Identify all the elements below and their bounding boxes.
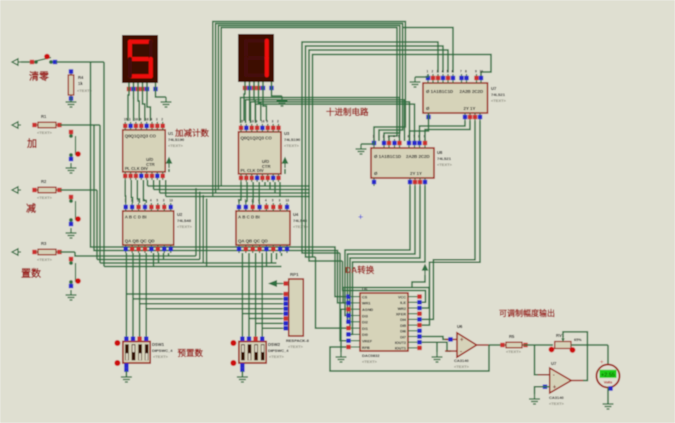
resistor R4 [68,69,74,100]
ground DSW1 [121,377,132,382]
wire U7 pin1 gnd [415,74,428,77]
svg-text:CA3140: CA3140 [454,358,469,363]
svg-text:XFER: XFER [396,313,406,317]
svg-text:65%: 65% [574,338,582,342]
wire U4 aux drop [276,253,278,260]
svg-text:IOUT1: IOUT1 [395,347,406,351]
svg-text:QA QB QC QD: QA QB QC QD [125,239,155,244]
7-segment display digit 5 [122,35,158,83]
svg-text:CA3140: CA3140 [549,395,564,400]
wire DAC vcc [412,275,425,288]
svg-text:+2.55: +2.55 [601,373,615,379]
wire U2 aux drop [168,253,170,256]
wire U7b feedback to RV1 wiper [563,332,587,381]
svg-text:DI6: DI6 [400,330,406,334]
svg-text:8: 8 [266,119,268,123]
wire IOUT1 to op-amp [422,337,451,340]
wire U3 control drop [269,182,271,190]
svg-text:5: 5 [272,199,274,203]
input terminal RP1 pin1 [268,280,282,287]
wire [21,61,31,63]
op-amp U7 CA3140 second [538,368,584,393]
svg-text:+: + [553,385,557,391]
wire U3 outputs to U8 [241,98,415,142]
svg-text:Q0Q1Q2Q3 CO: Q0Q1Q2Q3 CO [241,135,273,140]
wire U3 control drop [279,182,281,197]
wire [60,189,97,191]
wire riser [195,188,197,256]
wire U8 outputs to DAC [345,186,425,334]
svg-text:WR1: WR1 [362,302,370,306]
push button subtract [70,196,76,225]
svg-text:R5: R5 [509,334,515,339]
wire to U7b minus [535,345,550,375]
svg-text:<TEXT>: <TEXT> [288,344,304,349]
wire RP1 to DSW2 columns [242,314,282,329]
svg-text:3: 3 [156,117,158,121]
svg-text:AGND: AGND [362,308,373,312]
ground [66,228,77,238]
svg-text:7: 7 [413,135,415,139]
ground op-amp U7b [529,394,540,404]
wire DAC WR2 loop [343,288,429,309]
wire clear net vertical [103,62,105,267]
svg-text:2: 2 [277,119,279,123]
wire U1 control drop [147,180,149,186]
wire U1 control drop [159,180,161,193]
svg-text:<TEXT>: <TEXT> [284,143,300,148]
power arrow U3 [283,158,288,168]
svg-text:减: 减 [26,202,36,215]
wire U4 aux drop [281,253,283,256]
svg-text:2: 2 [432,70,434,74]
svg-text:PL CLK DIV: PL CLK DIV [241,168,264,173]
svg-text:2A2B 2C2D: 2A2B 2C2D [406,154,430,159]
wire bundle A line [221,28,397,187]
wire U4 to DSW2 [242,253,262,339]
svg-text:3: 3 [437,70,439,74]
counter IC U3 74LS190 [239,119,282,181]
wire R5 to RV1 [524,344,553,346]
wire riser [202,195,204,263]
svg-text:2Y 1Y: 2Y 1Y [410,171,422,176]
power arrow U1 [167,158,172,168]
wire meter top [607,345,609,365]
input terminal subtract [12,187,21,193]
svg-text:7: 7 [460,70,462,74]
svg-text:U7: U7 [551,361,557,366]
svg-text:Ø 1A1B1C1D: Ø 1A1B1C1D [374,154,401,159]
decoder IC U4 74LS48 [236,199,290,254]
svg-text:Ø 1A1B1C1D: Ø 1A1B1C1D [426,89,453,94]
wire U7 right input riser [313,55,492,258]
svg-text:6: 6 [452,70,454,74]
ground [66,163,77,173]
op-amp U6 input marker [448,337,452,341]
wire bundle A line [216,24,403,194]
svg-text:IOUT2: IOUT2 [395,341,406,345]
gate IC U7 74LS21 [423,70,488,122]
wire U8 pin1 gnd [361,141,374,144]
svg-text:R4: R4 [78,75,84,80]
potentiometer RV1 [549,337,576,353]
svg-text:DA转换: DA转换 [345,265,375,275]
wire U7 inputs riser group [302,42,448,341]
ground DSW2 [237,377,248,382]
wire U1 to U2 data [125,180,146,203]
wire DAC agnd [341,309,346,352]
wire U7 out2 to DAC DI6 [422,121,480,325]
ground display2 common [277,96,288,106]
wire meter bottom [607,388,609,405]
svg-text:U6: U6 [457,324,463,329]
wire DSW1 gnd [125,371,127,377]
wire riser [206,199,208,267]
wire control bus [154,189,310,191]
svg-text:DIPSWC_4: DIPSWC_4 [268,348,289,353]
DIP switch DSW1 [114,337,150,373]
svg-text:16: 16 [261,119,265,123]
svg-text:2: 2 [383,135,385,139]
ground U7 [410,77,421,87]
svg-text:RFB: RFB [362,346,370,350]
wire bus subtract [97,259,200,261]
svg-text:十进制电路: 十进制电路 [326,107,369,117]
svg-text:VCC: VCC [398,295,406,299]
svg-text:<TEXT>: <TEXT> [437,162,453,167]
svg-text:-: - [553,373,555,379]
svg-text:5: 5 [156,199,158,203]
svg-text:DI7: DI7 [400,335,406,339]
wire riser [199,192,201,260]
svg-text:4: 4 [150,199,152,203]
power arrow DAC VCC [423,265,428,275]
svg-text:74LS190: 74LS190 [284,137,301,142]
DAC IC U5 DAC0832 [346,293,422,351]
svg-text:QA QB QC QD: QA QB QC QD [238,239,268,244]
wire control bus [160,192,310,194]
svg-text:1: 1 [427,70,429,74]
DIP switch DSW2 [230,337,266,373]
svg-text:Q0Q1Q2Q3 CO: Q0Q1Q2Q3 CO [125,133,157,138]
wire RV1 to meter [571,344,608,346]
svg-text:<TEXT>: <TEXT> [37,195,53,200]
svg-text:加减计数: 加减计数 [174,128,210,138]
decoder IC U2 74LS48 [123,199,174,254]
wire bundle A line [218,26,399,190]
wire data bit to DAC [94,125,346,303]
resistor R5 [500,342,527,348]
svg-text:RP1: RP1 [290,272,299,277]
svg-text:Ø: Ø [426,106,430,111]
svg-text:4: 4 [393,135,395,139]
svg-text:DI0: DI0 [362,333,368,337]
svg-text:U2: U2 [177,212,183,217]
wire U3 to U4 data [239,182,260,203]
op-amp U7b input marker [543,385,547,389]
wire [60,251,75,253]
svg-text:<TEXT>: <TEXT> [454,364,470,369]
svg-text:74LS21: 74LS21 [491,92,506,97]
svg-text:VREF: VREF [362,340,373,344]
svg-text:<TEXT>: <TEXT> [491,98,507,103]
svg-text:1: 1 [129,117,131,121]
svg-text:3: 3 [388,135,390,139]
wire add net vertical [99,125,101,263]
svg-text:DIPSWC_4: DIPSWC_4 [152,348,173,353]
svg-text:<TEXT>: <TEXT> [153,354,169,359]
svg-text:4: 4 [265,199,267,203]
wire bundle A branch to U7 [403,28,453,73]
svg-text:1: 1 [373,135,375,139]
svg-text:R1: R1 [41,114,47,119]
svg-text:A B C D BI: A B C D BI [238,215,260,220]
resistor R1 [32,122,61,128]
wire [60,124,100,126]
svg-text:U3: U3 [284,131,290,136]
wire U1 control drop [165,180,167,197]
svg-text:9: 9 [475,70,477,74]
wire bus extension [203,262,276,264]
svg-text:2Y 1Y: 2Y 1Y [464,106,476,111]
svg-text:8: 8 [465,70,467,74]
svg-text:74LS21: 74LS21 [437,156,452,161]
push button load [70,258,76,287]
gate IC U8 74LS21 [371,135,434,187]
voltmeter [597,365,620,388]
wire U2 to DSW1 [126,253,146,339]
svg-text:-: - [460,349,462,355]
svg-text:5: 5 [398,135,400,139]
svg-text:U1: U1 [168,131,174,136]
wire bus extension [207,266,282,268]
svg-text:DSW2: DSW2 [268,342,281,347]
svg-text:1k: 1k [78,81,83,86]
wire U2 aux drop [153,253,155,267]
svg-text:13: 13 [169,199,173,203]
svg-text:<TEXT>: <TEXT> [168,143,184,148]
wire to op-amp plus [437,342,451,351]
display2 pin markers [243,86,247,90]
svg-text:<TEXT>: <TEXT> [37,257,53,262]
wire U2 aux drop [158,253,160,263]
svg-text:DI4: DI4 [400,318,407,322]
svg-text:置数: 置数 [21,267,42,280]
ground DAC left [336,352,347,362]
svg-text:10: 10 [134,117,138,121]
wire U3 control drop [264,182,266,186]
wire U7b plus to gnd [535,387,550,394]
svg-text:+: + [460,338,464,344]
wire U7 out to U8 b [425,121,470,141]
resistor pack RP1 [282,279,303,336]
svg-text:R2: R2 [41,179,47,184]
wire display2 common [272,82,283,96]
svg-text:+: + [358,212,363,222]
svg-text:74LS48: 74LS48 [177,218,192,223]
wire RP1 to DSW1 columns [126,294,282,309]
wire U4 aux drop [266,253,268,267]
svg-text:16: 16 [145,117,149,121]
wire [56,61,104,63]
wire U1 control drop [153,180,155,190]
svg-text:U4: U4 [293,212,299,217]
display1 pin markers [127,87,131,91]
svg-text:<TEXT>: <TEXT> [362,359,378,364]
wire display1 common [156,83,167,97]
wire control bus [166,196,310,198]
svg-text:13: 13 [286,199,290,203]
ground [66,290,77,300]
svg-text:U8: U8 [437,150,443,155]
wire U7 out to U8 a [420,121,466,141]
ground display1 common [161,97,172,107]
op-amp U6 CA3140 [445,333,489,357]
svg-text:DSW1: DSW1 [152,342,165,347]
svg-text:3: 3 [163,199,165,203]
svg-text:<TEXT>: <TEXT> [177,224,193,229]
svg-text:+: + [600,360,604,366]
svg-text:<TEXT>: <TEXT> [506,349,522,354]
wire DAC feedback loop [330,345,489,371]
7-segment display digit 1 [238,34,274,82]
wire display2 to U3 staircase [244,82,266,121]
svg-text:DI1: DI1 [362,327,368,331]
wire [284,169,286,174]
ground [66,97,77,107]
svg-text:10: 10 [480,70,484,74]
svg-text:Volts: Volts [604,381,613,385]
input terminal load [12,249,21,255]
wire bus add [100,262,203,264]
svg-text:预置数: 预置数 [178,348,204,358]
svg-text:<TEXT>: <TEXT> [269,354,285,359]
svg-text:3: 3 [279,199,281,203]
svg-text:<TEXT>: <TEXT> [37,130,53,135]
wire U2 aux drop [163,253,165,260]
wire control bus [148,185,311,187]
svg-text:15: 15 [124,117,128,121]
svg-text:可调制幅度输出: 可调制幅度输出 [499,308,555,318]
wire bundle A into U8 [374,119,405,141]
svg-text:Ø: Ø [374,171,378,176]
svg-text:R3: R3 [41,241,47,246]
svg-text:A B C D BI: A B C D BI [125,215,147,220]
svg-text:DAC0832: DAC0832 [362,353,380,358]
svg-text:9: 9 [140,117,142,121]
voltmeter minus marker [608,386,612,390]
input terminal add [12,122,21,128]
ground DAC IOUT2 [432,352,443,362]
wire U6 output [489,344,504,346]
svg-text:4: 4 [442,70,444,74]
svg-text:加: 加 [26,137,37,150]
wire riser to DAC control [343,261,351,291]
resistor R2 [32,187,61,193]
input terminal clear [12,59,21,65]
wire DSW2 gnd [241,371,243,377]
ground U8 [356,144,367,154]
svg-text:2A2B 2C2D: 2A2B 2C2D [460,89,484,94]
wire bus clear [104,266,207,268]
svg-text:DI3: DI3 [362,314,368,318]
svg-text:<TEXT>: <TEXT> [549,401,565,406]
wire load net [75,252,196,256]
wire IOUT2 gnd [422,342,437,352]
wire [168,169,170,172]
wire display1 to U1 staircase [128,83,150,121]
push switch clear [31,58,56,64]
svg-text:WR2: WR2 [398,307,406,311]
wire bundle A line [213,22,406,197]
wire subtract net vertical [96,190,98,260]
push button add [70,131,76,160]
svg-text:DI2: DI2 [362,321,368,325]
counter IC U1 74LS190 [123,117,166,179]
svg-text:ILE: ILE [400,301,406,305]
svg-text:PL CLK DIV: PL CLK DIV [125,166,148,171]
svg-text:U7: U7 [491,86,497,91]
svg-text:DI5: DI5 [400,324,406,328]
wire U7 1Y to U8 [410,113,429,141]
wire data bit to DAC [91,62,347,297]
wire U3 control drop [274,182,276,193]
svg-text:清零: 清零 [29,70,50,83]
wire DAC ILE loop [350,291,426,303]
svg-text:CS: CS [362,295,368,299]
resistor R3 [32,249,61,255]
svg-text:8: 8 [150,117,152,121]
wire U4 aux drop [271,253,273,263]
ground voltmeter [603,404,614,409]
svg-text:5: 5 [447,70,449,74]
svg-text:3: 3 [272,119,274,123]
wire U7 out to DAC DI5 [422,121,475,319]
svg-text:RESPACK-8: RESPACK-8 [286,338,310,343]
svg-text:2: 2 [161,117,163,121]
